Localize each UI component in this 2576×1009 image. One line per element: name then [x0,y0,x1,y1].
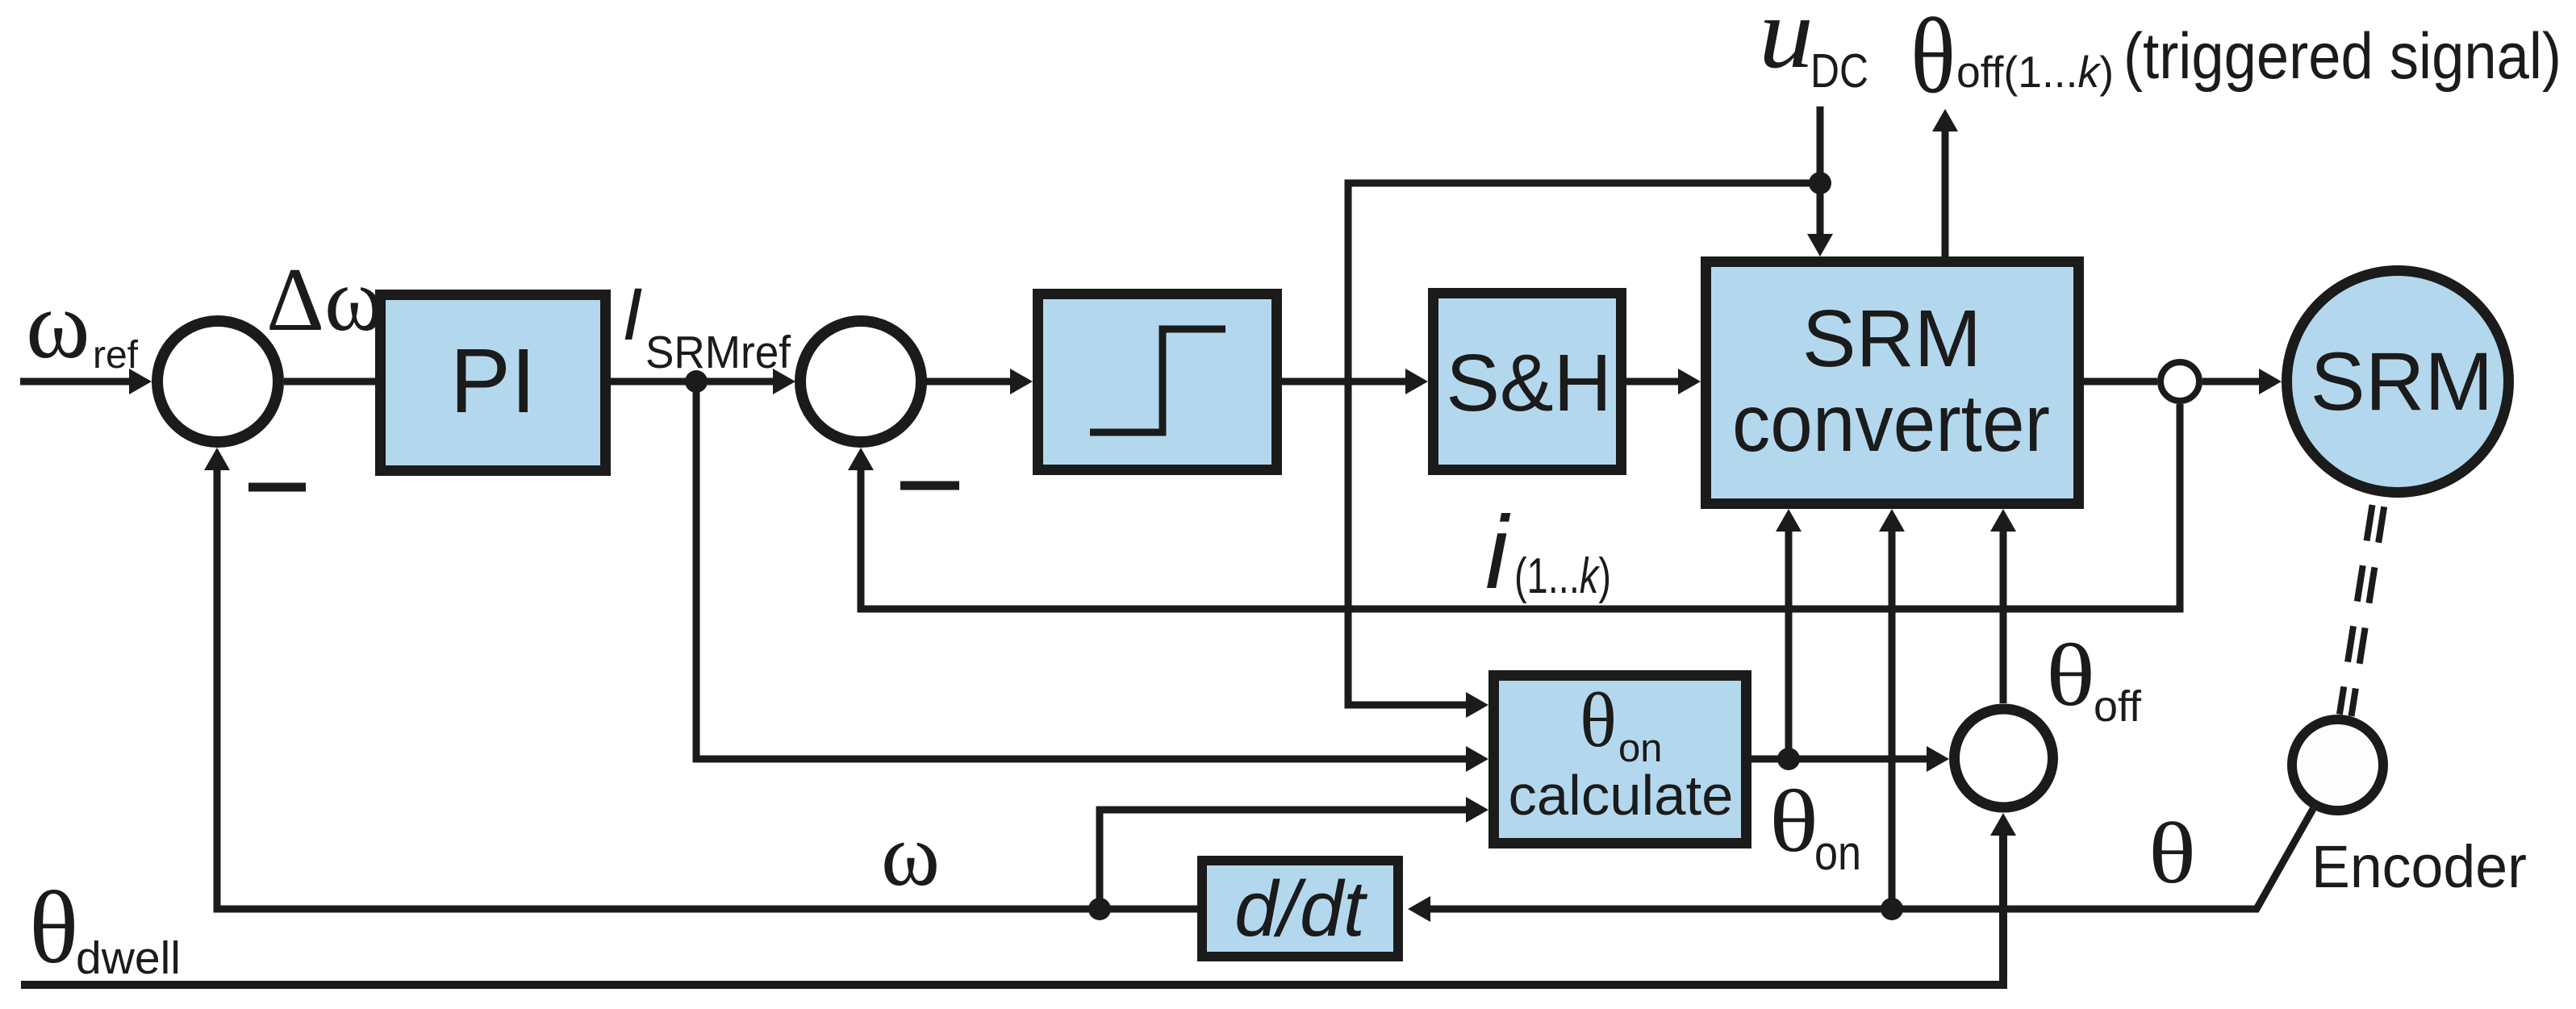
svg-text:d/dt: d/dt [1234,865,1368,953]
svg-text:DC: DC [1810,44,1868,98]
svg-text:θ: θ [2148,806,2196,902]
node: ISRMref branch [685,370,708,393]
summing junction S1 [157,321,278,442]
svg-text:ref: ref [93,334,139,377]
svg-text:i: i [1485,495,1511,611]
svg-text:θ: θ [29,870,78,985]
wire hysteresis to S&H [1282,369,1428,394]
svg-text:θ: θ [2046,626,2095,724]
wire omega to calculate block [1100,797,1488,909]
block SRM converter [1706,262,2079,504]
wire theta_off to converter [1990,509,2016,703]
svg-text:dwell: dwell [76,932,181,984]
wire theta_dwell [21,813,2016,985]
wire S1 to PI [284,378,375,386]
block theta_on calculate [1494,676,1747,844]
wire theta to converter [1879,509,1905,909]
block S&H [1434,294,1622,470]
wire theta_on output to theta_off junction [1751,746,1949,772]
wire u_DC input [1807,106,1833,256]
svg-text:ω: ω [26,271,90,379]
svg-text:(1...k): (1...k) [1514,548,1611,604]
svg-text:PI: PI [450,330,536,432]
svg-text:I: I [622,273,643,356]
node omega [1088,898,1111,920]
node theta_on [1777,748,1800,770]
svg-text:SRM: SRM [2311,336,2494,427]
hysteresis step symbol [1090,329,1225,432]
svg-text:θ: θ [1580,677,1617,763]
wire: omega_ref input [20,369,152,394]
svg-text:ω: ω [881,806,940,905]
wire S&H to converter [1626,369,1701,394]
wire omega feedback to S1 [204,448,1197,909]
svg-text:Δω: Δω [266,250,384,350]
label theta_off [2046,626,2142,731]
summing junction S2 [800,321,921,442]
label theta_on [1769,772,1861,880]
svg-text:calculate: calculate [1509,764,1734,827]
svg-text:S&H: S&H [1446,338,1612,428]
svg-text:(triggered signal): (triggered signal) [2123,20,2561,93]
wire u_DC tap to calculate block [1348,183,1820,718]
minus label for S1 [248,483,306,492]
svg-text:on: on [1814,826,1861,880]
wire S2 to hysteresis [921,369,1033,394]
node on u_DC line [1809,172,1831,194]
svg-text:off(1...k): off(1...k) [1956,47,2114,97]
wire theta_on to converter [1776,509,1802,759]
label theta_dwell [29,870,181,985]
svg-text:u: u [1759,0,1814,90]
encoder circle [2292,719,2383,811]
wire converter to SRM motor [2084,369,2282,394]
wire ISRMref to calculate block [696,382,1488,772]
block d/dt [1202,861,1398,957]
svg-text:off: off [2094,682,2142,731]
current feedback wire i(1..k) [848,404,2180,609]
svg-text:θ: θ [1910,0,1956,115]
shaft dashed link SRM to encoder [2340,495,2386,716]
svg-text:θ: θ [1769,772,1818,870]
block PI [381,295,606,471]
label u_DC [1759,0,1868,98]
minus label for S2 [900,482,959,490]
svg-text:Encoder: Encoder [2311,833,2527,900]
SRM motor circle [2287,271,2509,493]
small sensor circle on output wire [2161,362,2199,401]
node theta [1881,898,1903,920]
label omega_ref [26,271,139,379]
wire theta_off(1..k) output [1932,109,1958,256]
wire PI to S2 [611,369,795,394]
label theta_off(1...k) (triggered signal) [1910,0,2561,115]
wire theta from encoder to d/dt [1408,809,2313,922]
label I_SRMref [622,273,791,378]
svg-text:SRM: SRM [1802,294,1981,384]
svg-text:SRMref: SRMref [645,327,791,378]
summing junction theta_off [1955,709,2053,807]
label i_(1...k) [1485,495,1611,611]
svg-text:converter: converter [1732,378,2050,469]
block hysteresis [1038,294,1277,470]
